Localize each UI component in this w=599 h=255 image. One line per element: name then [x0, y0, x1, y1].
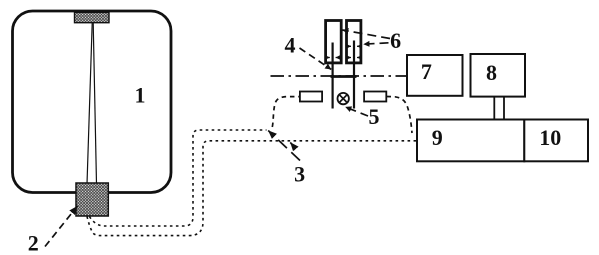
center axis (dash-dot line) [271, 75, 407, 77]
box 10 [524, 120, 588, 162]
box 8 [471, 54, 526, 97]
svg-text:4: 4 [285, 33, 296, 58]
leader arrow for 5 [345, 107, 368, 116]
excitation coil symbol (circle with X, element 5) [338, 93, 349, 104]
svg-text:5: 5 [369, 104, 380, 129]
leader arrow for 4 [300, 48, 332, 69]
gap dimension arrow right-prong right lower [357, 57, 360, 59]
gap dimension arrow left-prong right [336, 57, 340, 59]
vibrating prong left (element 4) [332, 43, 334, 109]
svg-text:6: 6 [390, 28, 401, 53]
feedthrough block (top hatched) [75, 12, 110, 22]
electrode housing left (of sensor 4/6) [326, 21, 342, 63]
box 9 [417, 120, 524, 162]
crossbar of fork [331, 75, 357, 78]
sensor lead (right dashed curve) [387, 97, 413, 134]
svg-text:7: 7 [421, 59, 432, 84]
gap dimension arrow right-prong left lower [348, 57, 351, 59]
suspension fiber (right line) [93, 23, 96, 184]
leader arrow 3b (to lower dotted cable) [290, 142, 295, 148]
sensor lead (left dashed curve) [272, 97, 300, 127]
cable loop B (dotted, to processor 9) [87, 141, 417, 236]
svg-text:3: 3 [294, 162, 305, 187]
leader arrow 6b (to right housing wall) [364, 43, 389, 44]
suspension fiber (left line) [87, 23, 92, 184]
leader arrow 6a (to gap between housings) [343, 30, 391, 39]
svg-text:10: 10 [539, 125, 561, 150]
vibrating prong right [353, 41, 355, 109]
gap dimension arrow right-prong right upper [357, 45, 360, 47]
chamber 1 (rounded enclosure) [13, 11, 172, 193]
svg-text:1: 1 [135, 83, 146, 108]
svg-text:2: 2 [28, 231, 39, 255]
cable loop A (dotted, to sensor leads) [90, 130, 267, 226]
leader arrow for 2 [45, 206, 78, 247]
leader arrow 3a (to upper dotted cable) [268, 131, 300, 161]
pickup electrode left (small box) [300, 92, 322, 102]
svg-text:8: 8 [486, 60, 497, 85]
svg-text:9: 9 [432, 125, 443, 150]
box 7 [407, 55, 463, 96]
connector bus between 8 and 9 (double line) [493, 97, 495, 120]
pickup electrode right (small box) [364, 92, 386, 102]
gap dimension arrow right-prong left upper [348, 45, 351, 47]
transducer block 2 (bottom hatched) [76, 183, 108, 216]
gap dimension arrow left-prong left [327, 57, 330, 59]
electrode housing right (of sensor 4/6) [347, 21, 361, 63]
